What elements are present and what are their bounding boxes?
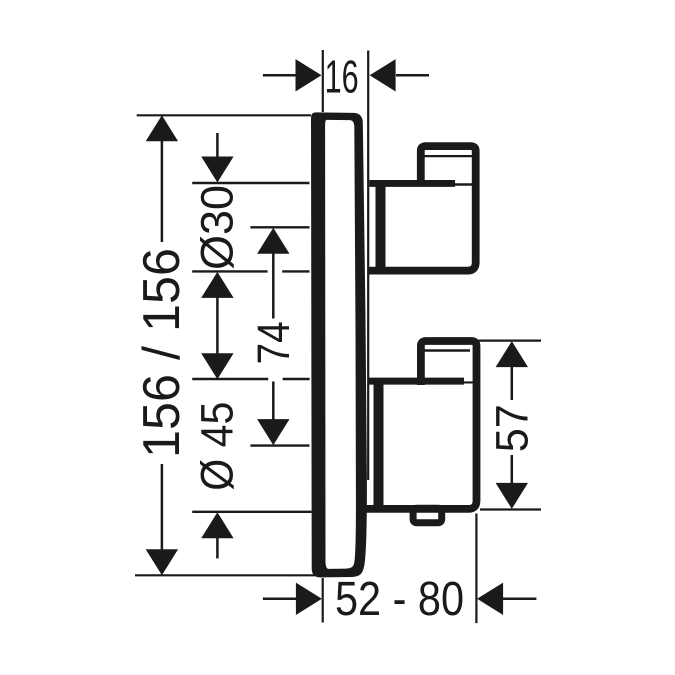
dim 52-80: left arrow [296, 583, 322, 615]
dim 16: left dim line [263, 74, 296, 77]
dim diam30: up arrow [201, 272, 233, 298]
dim 74: lower dim line [272, 382, 275, 421]
lower handle: base bar at plate [374, 378, 384, 511]
lower handle: grip lip line [424, 349, 470, 351]
dim diam30: upper leader [216, 133, 219, 158]
dim 52-80: right arrow [477, 583, 503, 615]
dim diam30: top line [192, 182, 309, 184]
dim 16: right arrow [370, 59, 396, 91]
dim 16: left arrow [296, 59, 322, 91]
top handle: body top edge (thick part) [369, 180, 455, 187]
dim 74: down arrow [257, 419, 289, 445]
svg-text:Ø30: Ø30 [191, 185, 242, 270]
dim 16: left extension line [322, 50, 324, 112]
svg-text:Ø 45: Ø 45 [192, 402, 243, 491]
dim 74: upper dim line [272, 253, 275, 319]
dim 74: up arrow [257, 228, 289, 254]
dim 16: right dim line [396, 74, 429, 77]
dim diam45: down arrow [201, 353, 233, 379]
dim 57: down arrow [496, 483, 528, 509]
dim 57: upper dim line [511, 366, 514, 400]
svg-text:156 / 156: 156 / 156 [133, 248, 191, 458]
dim 57: lower dim line [511, 455, 514, 484]
dim diam45: top line [192, 378, 309, 380]
lower handle: outline (grip + right edge + bottom edge) [366, 341, 477, 509]
svg-text:74: 74 [248, 321, 299, 364]
dim 57: up arrow [496, 341, 528, 367]
dim diam30: down arrow [201, 157, 233, 183]
dim diam45: leader between arrows [216, 296, 219, 355]
svg-text:57: 57 [487, 404, 538, 452]
dim diam45: up arrow [201, 512, 233, 538]
dim 156/156: down arrow [146, 549, 178, 575]
dim 16: right extension line [367, 51, 369, 481]
lower handle: bottom tab [413, 508, 442, 523]
top handle: base bar at plate [376, 181, 386, 274]
top handle: grip lip line [424, 155, 472, 157]
dim 52-80: right extension line [475, 514, 477, 624]
escutcheon plate (side view) [311, 112, 367, 577]
dim diam45: bottom line [192, 511, 311, 513]
dim 57: bottom extension line [480, 508, 541, 510]
lower handle: body top edge (thick part) [369, 378, 465, 385]
top handle: body outline (right edge + bottom edge + grip outline) [368, 146, 476, 271]
dim diam30: bottom line [192, 270, 309, 272]
top handle: body top edge (thin part) [452, 183, 472, 186]
dim 156/156: lower dim line [161, 464, 164, 551]
dim diam45: lower leader [216, 537, 219, 558]
dim 74: top line [250, 226, 309, 228]
dim 74: bottom line [250, 444, 309, 446]
dim 156/156: bottom extension line [135, 574, 319, 576]
lower handle: body top edge (thin part) [462, 381, 473, 383]
dim 156/156: up arrow [146, 115, 178, 141]
svg-text:52 - 80: 52 - 80 [335, 573, 464, 626]
dim 52-80: left dim line [263, 598, 297, 601]
dim 156/156: top extension line [137, 114, 311, 116]
dim 57: top extension line [479, 340, 542, 342]
dim 52-80: left extension line [322, 578, 324, 623]
dim 156/156: upper dim line [161, 140, 164, 242]
svg-text:16: 16 [325, 50, 359, 102]
dim 52-80: right dim line [503, 598, 537, 601]
